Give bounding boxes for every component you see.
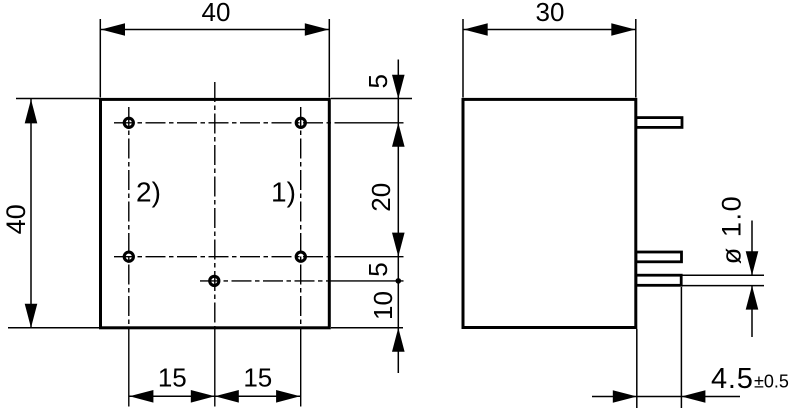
svg-text:30: 30 — [536, 0, 565, 27]
right dimension chain: dimension line — [397, 60, 399, 374]
svg-text:ø 1.0: ø 1.0 — [717, 195, 747, 265]
pin hole bottom-left — [124, 252, 133, 261]
svg-text:10: 10 — [368, 291, 398, 320]
svg-text:2): 2) — [136, 177, 161, 208]
pin 1 (upper right, side view) — [636, 118, 682, 128]
svg-text:20: 20 — [366, 183, 396, 212]
extension line below right column — [300, 328, 302, 407]
dimension 30 top: extension lines — [462, 19, 464, 98]
dimension 40 left: extension lines — [16, 98, 99, 100]
extension line below left column — [128, 328, 130, 407]
svg-text:15: 15 — [158, 363, 187, 393]
dimension 40 top: extension lines — [99, 19, 101, 98]
pin diameter extension lines — [682, 274, 764, 276]
svg-text:1): 1) — [271, 177, 296, 208]
pin diameter dimension line — [751, 221, 753, 276]
svg-text:5: 5 — [363, 74, 393, 88]
centerline vertical left column — [128, 107, 130, 328]
centerline vertical middle column — [214, 82, 216, 328]
centerline horizontal row 3 (center pin) — [200, 280, 338, 282]
dimension 40 left: dimension line — [30, 99, 32, 328]
dimension 40 top: dimension line — [100, 29, 329, 31]
top view outline (40x40 body) — [101, 99, 330, 327]
svg-text:40: 40 — [1, 204, 31, 234]
pin hole bottom-right — [296, 252, 305, 261]
pin 3 (lower right, side view) — [636, 275, 681, 285]
svg-text:15: 15 — [243, 363, 272, 393]
extension line below middle column — [214, 328, 216, 407]
dimension 15+15 bottom: dimension line — [129, 395, 301, 397]
right dimension chain: bottom edge extension — [331, 327, 403, 329]
svg-text:4.5: 4.5 — [711, 363, 754, 395]
svg-text:±0.5: ±0.5 — [754, 372, 789, 392]
side view outline (30 wide body) — [463, 99, 636, 327]
centerline horizontal row 1 — [114, 122, 338, 124]
pin hole top-left — [124, 118, 133, 127]
pin 2 (middle right, side view) — [636, 252, 682, 262]
centerline vertical right column — [300, 107, 302, 328]
pin hole top-right — [296, 118, 305, 127]
right dimension chain: dot at 281 — [396, 278, 402, 284]
dimension 4.5 extension lines — [636, 329, 638, 408]
pin hole center — [210, 276, 219, 285]
dimension 30 top: dimension line — [463, 29, 636, 31]
dimension 4.5 dimension line — [592, 396, 740, 398]
right dimension chain: top edge extension — [331, 98, 412, 100]
svg-text:40: 40 — [202, 0, 231, 27]
svg-text:5: 5 — [363, 262, 393, 276]
centerline horizontal row 2 — [114, 256, 338, 258]
